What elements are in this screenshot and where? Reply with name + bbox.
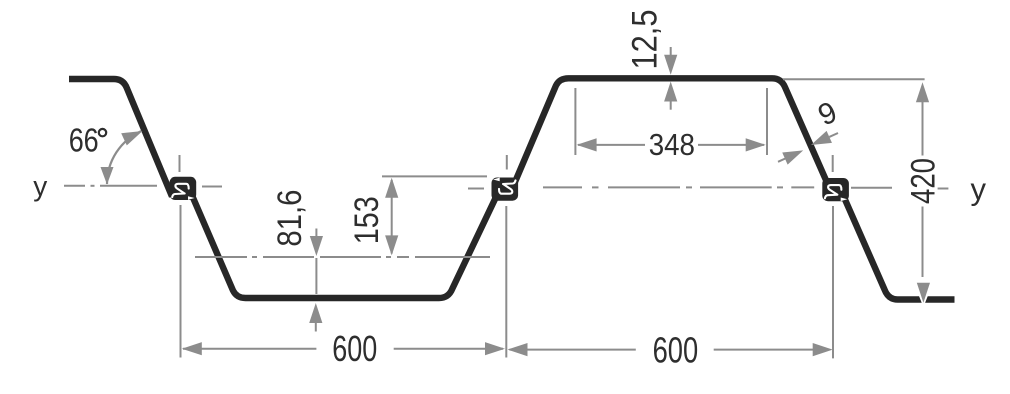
dimension 348 [574,88,576,155]
dimension 12,5 [670,47,672,57]
dimension 9 leader arrows [829,133,838,137]
node: y-y axis dash-dot left portion [64,185,157,187]
node: y-y axis tick left of middle interlock [468,188,484,190]
node: middle interlock (rotated 180) [492,178,519,201]
svg-text:348: 348 [649,127,695,162]
dimension 81,6 [315,229,317,238]
svg-text:153: 153 [348,196,386,244]
node: trough dash-dot line [195,256,490,258]
wire: web up from middle interlock, top flange, web down to right interlock [515,78,829,187]
svg-text:66: 66 [69,121,99,158]
node: extension line below left interlock [180,205,182,358]
node: y-y axis right of right interlock [851,187,892,189]
wire: left top flange and descending web into left interlock [69,79,172,197]
dimension 66 degree arc [107,131,141,184]
node: y-y axis tick right of left interlock [202,186,222,188]
svg-text:600: 600 [332,328,377,369]
node: crosshair ticks above interlocks [179,155,181,172]
wire: web from left interlock, bottom flange, web up to middle interlock [193,197,497,299]
dimension 153 [382,175,487,177]
node: extension line below middle interlock [505,206,507,358]
wire: web down from right interlock to bottom-right flange stub [845,200,955,300]
svg-text:420: 420 [904,158,942,204]
node: right interlock [822,178,849,201]
node: y-y axis dash-dot between middle and right interlocks [543,186,814,188]
node: left interlock [170,177,197,200]
svg-text:600: 600 [653,329,699,370]
node: extension line below right interlock [832,206,834,358]
dimension 600 left span [183,348,503,350]
svg-text:y: y [33,171,47,202]
svg-text:81,6: 81,6 [271,190,309,247]
dimension 600 right span [510,349,814,351]
svg-text:y: y [971,172,987,207]
svg-text:12,5: 12,5 [626,10,665,70]
dimension 420 [783,78,925,80]
